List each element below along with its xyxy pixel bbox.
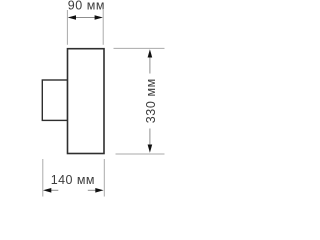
dimension 140 мм : right arrowhead (95, 188, 103, 193)
dimension 90 мм : dimension line (74, 17, 97, 19)
svg-text:330 мм: 330 мм (144, 78, 158, 123)
dimension 140 мм : right extension line (103, 159, 105, 197)
svg-text:90 мм: 90 мм (68, 0, 105, 13)
dimension 90 мм : right arrowhead (95, 15, 103, 20)
dimension 140 мм : right tail line (88, 189, 96, 191)
dimension 90 мм : right extension line (102, 10, 104, 45)
dimension 90 мм : left arrowhead (68, 15, 76, 20)
dimension 330 мм : down arrowhead (148, 145, 153, 153)
dimension 330 мм : up arrowhead (148, 49, 153, 57)
dimension 330 мм : upper tail line (149, 57, 151, 74)
dimension 330 мм : lower tail line (149, 129, 151, 146)
mounting bracket (small rectangle on left) (42, 80, 67, 120)
svg-text:140 мм: 140 мм (51, 173, 95, 187)
dimension 330 мм : top extension line (114, 47, 165, 49)
dimension 330 мм : bottom extension line (116, 153, 165, 155)
dimension 140 мм : left extension line (42, 159, 44, 197)
dimension 140 мм : left arrowhead (43, 188, 51, 193)
dimension 140 мм : left tail line (51, 189, 59, 191)
dimension 90 мм : left extension line (66, 10, 68, 45)
lamp body (tall rectangle) (68, 49, 105, 154)
